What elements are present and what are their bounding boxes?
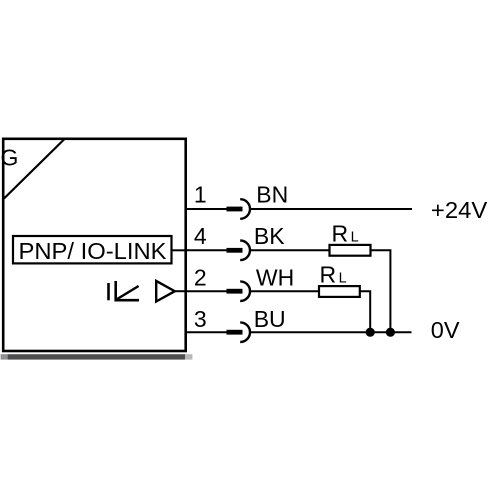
svg-text:PNP/ IO-LINK: PNP/ IO-LINK [19, 238, 168, 264]
junction dot B [386, 328, 395, 337]
label RL 1 [332, 221, 359, 247]
svg-text:2: 2 [194, 265, 207, 291]
connector pin 2 [227, 281, 251, 301]
svg-text:1: 1 [194, 182, 207, 208]
svg-text:WH: WH [256, 265, 294, 291]
wire pin 4 [185, 249, 228, 251]
connector pin 1 [227, 199, 251, 219]
corner diagonal mark [4, 140, 64, 199]
wire pin 3 [185, 331, 228, 333]
svg-text:BK: BK [254, 223, 285, 249]
resistor R1 [330, 245, 371, 256]
wire pin 1 [185, 208, 228, 210]
wire BK to resistor R1 [250, 249, 330, 251]
switching output symbol [109, 281, 140, 300]
svg-text:3: 3 [194, 306, 207, 332]
svg-text:R: R [320, 261, 337, 287]
wire from U1 to pin 4 [172, 249, 187, 251]
sensor shadow [1, 354, 193, 359]
connector pin 3 [227, 322, 251, 342]
svg-text:L: L [351, 230, 359, 246]
svg-text:R: R [332, 221, 349, 247]
resistor R2 [319, 286, 360, 297]
wire BN to +24V [250, 208, 412, 210]
svg-text:+24V: +24V [431, 197, 488, 223]
wire BU to 0V [250, 331, 412, 333]
junction dot A [366, 328, 375, 337]
sensor body outline [3, 139, 186, 351]
svg-text:0V: 0V [431, 317, 460, 343]
wire from amplifier to pin 2 [175, 290, 186, 292]
wire R2 to 0V rail [360, 291, 370, 332]
block U1 PNP/ IO-LINK [13, 236, 172, 264]
wire R1 to 0V rail [371, 250, 391, 332]
svg-text:L: L [339, 270, 347, 286]
wire WH to resistor R2 [250, 290, 319, 292]
amplifier triangle [156, 281, 175, 302]
connector pin 4 [227, 241, 251, 261]
svg-text:4: 4 [194, 223, 207, 249]
svg-text:BN: BN [256, 182, 288, 208]
label RL 2 [320, 261, 347, 287]
wire pin 2 [185, 290, 228, 292]
svg-text:G: G [1, 144, 19, 170]
svg-text:BU: BU [254, 306, 286, 332]
